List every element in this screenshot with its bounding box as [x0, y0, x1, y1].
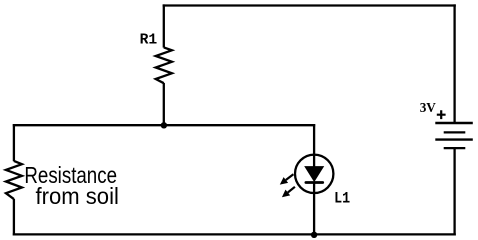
junction node: R1 to middle rail — [161, 122, 167, 128]
LED light arrow 2 — [282, 187, 295, 197]
junction node: LED to bottom rail — [311, 232, 317, 238]
battery B1 plate 4 (short, negative) — [444, 147, 466, 149]
svg-text:from soil: from soil — [36, 183, 119, 209]
LED L1 — [295, 155, 333, 193]
wire: R1 bottom lead — [163, 83, 165, 126]
wire: R1 top lead — [163, 4, 165, 47]
wire: top rail — [163, 4, 456, 6]
wire: LED anode lead — [313, 124, 315, 167]
wire: battery negative lead (right rail lower) — [453, 148, 455, 235]
battery + polarity mark — [437, 110, 446, 119]
wire: LED cathode lead — [313, 183, 315, 236]
resistor R1 — [156, 47, 172, 83]
svg-text:3V: 3V — [420, 100, 437, 115]
wire: left branch upper lead — [13, 124, 15, 161]
wire: bottom rail — [13, 233, 456, 235]
wire: middle rail — [13, 124, 315, 126]
battery B1 plate 1 (long, positive) — [435, 122, 473, 124]
wire: left branch lower lead — [13, 199, 15, 236]
svg-text:R1: R1 — [140, 31, 158, 48]
wire: battery positive lead (right rail upper) — [453, 4, 455, 123]
resistor: resistance from soil — [6, 161, 22, 199]
battery B1 plate 3 (long) — [435, 138, 473, 140]
LED light arrow 1 — [280, 174, 294, 184]
battery B1 plate 2 (short) — [444, 131, 466, 133]
svg-text:L1: L1 — [334, 190, 350, 208]
